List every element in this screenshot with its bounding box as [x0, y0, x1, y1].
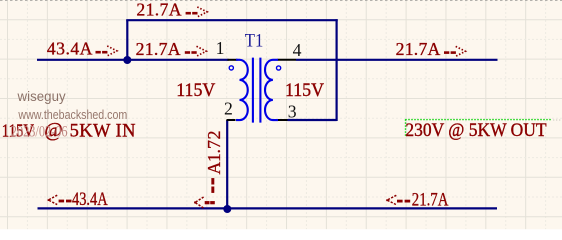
svg-text:1: 1	[204, 153, 224, 162]
svg-text:T1: T1	[245, 29, 264, 50]
svg-text:.: .	[204, 149, 224, 153]
svg-text:115V: 115V	[285, 80, 325, 101]
svg-text:21.7A: 21.7A	[412, 189, 449, 210]
svg-text:2: 2	[224, 98, 233, 118]
svg-text:43.4A: 43.4A	[72, 188, 108, 209]
svg-text:2023/02-06: 2023/02-06	[11, 123, 68, 141]
svg-text:43.4A: 43.4A	[47, 39, 93, 59]
svg-text:3: 3	[288, 102, 297, 122]
svg-text:5KW IN: 5KW IN	[70, 121, 136, 141]
svg-text:1: 1	[216, 38, 225, 58]
svg-text:A: A	[204, 161, 224, 174]
svg-text:21.7A: 21.7A	[136, 0, 181, 20]
svg-text:115V: 115V	[176, 80, 216, 101]
svg-text:2: 2	[204, 130, 224, 139]
svg-text:www.thebackshed.com: www.thebackshed.com	[18, 107, 128, 122]
svg-text:wiseguy: wiseguy	[17, 89, 66, 104]
svg-text:21.7A: 21.7A	[396, 39, 441, 59]
svg-text:230V @ 5KW OUT: 230V @ 5KW OUT	[405, 120, 546, 141]
svg-text:7: 7	[204, 140, 224, 149]
svg-text:4: 4	[293, 40, 302, 60]
svg-text:21.7A: 21.7A	[136, 39, 181, 59]
